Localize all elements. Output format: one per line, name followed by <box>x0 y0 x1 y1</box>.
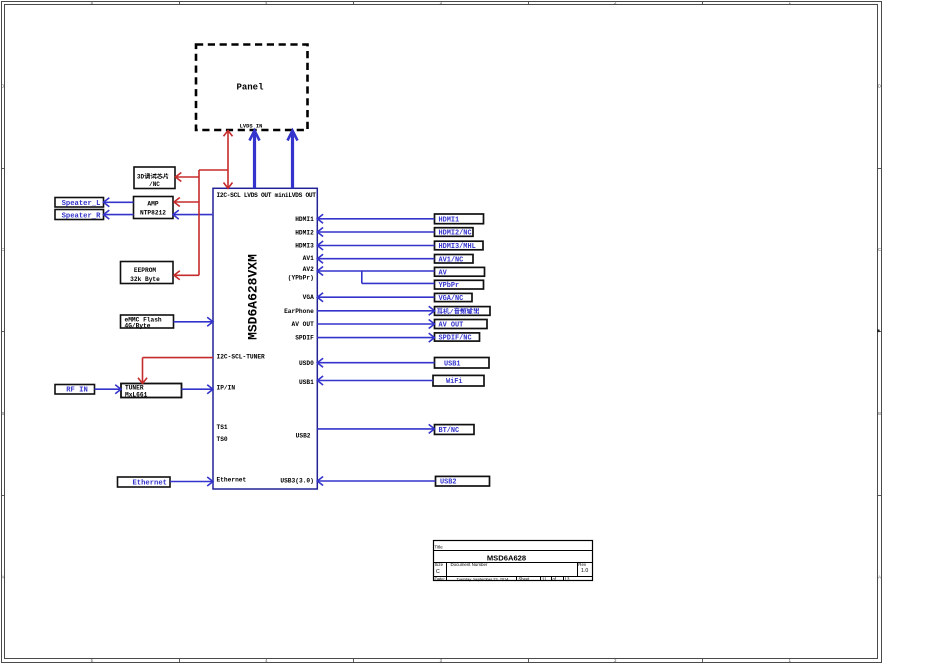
svg-text:Sheet: Sheet <box>519 576 531 581</box>
wire chip to BT/NC (arrow at box) <box>317 424 434 433</box>
svg-text:VGA: VGA <box>303 294 314 301</box>
pin IP/IN (chip left) <box>217 385 236 392</box>
block EarPhone connector (耳机/音频输出) <box>435 307 491 316</box>
svg-text:WiFi: WiFi <box>446 378 463 386</box>
wire I2C-SCL-TUNER to TUNER (red) <box>138 358 213 384</box>
wire red to EEPROM <box>174 271 199 280</box>
svg-text:HDMI1: HDMI1 <box>439 216 460 224</box>
wire Ethernet to chip <box>170 477 213 486</box>
svg-text:A: A <box>1 574 4 579</box>
pin Ethernet (chip left) <box>217 477 247 484</box>
block SPDIF/NC connector <box>435 333 480 343</box>
block Speater_R <box>55 210 104 221</box>
svg-text:C: C <box>436 569 440 575</box>
svg-text:NTP8212: NTP8212 <box>140 209 166 216</box>
svg-text:BT/NC: BT/NC <box>439 427 460 435</box>
block USB2 connector <box>436 476 490 486</box>
svg-text:Ethernet: Ethernet <box>217 477 247 484</box>
svg-text:13: 13 <box>565 576 570 581</box>
block AMP NTP8212 <box>134 197 174 219</box>
svg-text:AMP: AMP <box>147 200 158 207</box>
svg-text:Speater_R: Speater_R <box>62 212 102 220</box>
svg-text:I2C-SCL-TUNER: I2C-SCL-TUNER <box>217 354 266 361</box>
svg-text:USB2: USB2 <box>296 433 311 440</box>
svg-text:AV1/NC: AV1/NC <box>439 256 464 264</box>
svg-text:HDMI3: HDMI3 <box>295 243 314 250</box>
svg-text:B: B <box>878 411 881 416</box>
svg-text:Title: Title <box>435 545 444 550</box>
svg-text:C: C <box>878 247 881 252</box>
block 3D debug chip /NC <box>134 167 175 189</box>
svg-text:TS1: TS1 <box>217 424 228 431</box>
wire HDMI1 to chip (arrow at chip) <box>317 214 434 223</box>
wire red to AMP <box>174 198 199 207</box>
svg-text:11: 11 <box>542 576 547 581</box>
svg-text:D: D <box>1 84 4 89</box>
wire AMP to Speater_L <box>104 198 134 207</box>
svg-text:1.0: 1.0 <box>581 568 588 574</box>
wire red I2C branch jog <box>199 170 228 275</box>
pin USB3(3.0) (chip right) <box>280 478 313 485</box>
wire AV to chip (arrow at chip) <box>317 267 434 276</box>
svg-text:Ethernet: Ethernet <box>132 480 167 488</box>
svg-text:LVDS IN: LVDS IN <box>240 124 263 130</box>
block HDMI3/MHL connector <box>435 241 484 251</box>
svg-text:Panel: Panel <box>236 83 264 93</box>
pin AV2 (chip right) <box>303 266 314 273</box>
svg-text:Tuesday, September 23, 2014: Tuesday, September 23, 2014 <box>457 576 510 581</box>
block Ethernet <box>118 477 171 488</box>
svg-text:MSD6A628: MSD6A628 <box>487 554 526 563</box>
svg-text:EarPhone: EarPhone <box>284 308 314 315</box>
pin USD0 (chip right) <box>299 360 314 367</box>
pin AV OUT (chip right) <box>292 321 315 328</box>
wire chip to AV OUT jack (arrow at box) <box>317 320 434 329</box>
svg-text:AV: AV <box>439 269 448 277</box>
svg-text:HDMI3/MHL: HDMI3/MHL <box>439 243 476 251</box>
svg-text:USB2: USB2 <box>440 479 457 487</box>
svg-text:IP/IN: IP/IN <box>217 385 236 392</box>
block BT/NC connector <box>435 425 475 435</box>
pin USB1 (chip right) <box>299 379 314 386</box>
block Speater_L <box>55 198 104 208</box>
svg-text:32k Byte: 32k Byte <box>130 276 160 283</box>
title block <box>434 541 593 582</box>
svg-text:(YPbPr): (YPbPr) <box>288 275 314 282</box>
block EEPROM 32k Byte <box>121 262 174 284</box>
svg-text:4G/Byte: 4G/Byte <box>125 322 151 329</box>
svg-text:AV OUT: AV OUT <box>439 322 464 330</box>
svg-text:USB1: USB1 <box>299 379 314 386</box>
block AV1/NC connector <box>435 255 474 265</box>
block VGA/NC connector <box>435 293 473 303</box>
pin EarPhone (chip right) <box>284 308 314 315</box>
svg-text:MSD6A628VXM: MSD6A628VXM <box>246 254 261 340</box>
svg-text:I2C-SCL LVDS OUT miniLVDS OUT: I2C-SCL LVDS OUT miniLVDS OUT <box>217 192 317 199</box>
svg-text:MxL661: MxL661 <box>125 391 148 398</box>
block HDMI1 connector <box>435 214 484 224</box>
pin USB2 (chip right) <box>296 433 311 440</box>
pin TS0 (chip left) <box>217 436 228 443</box>
svg-text:Rev: Rev <box>578 562 587 567</box>
svg-text:/NC: /NC <box>149 181 160 188</box>
svg-text:Speater_L: Speater_L <box>62 200 101 208</box>
svg-text:EEPROM: EEPROM <box>134 267 157 274</box>
pin HDMI1 (chip right) <box>295 216 314 223</box>
block HDMI2/NC connector <box>435 228 474 238</box>
pin HDMI3 (chip right) <box>295 243 314 250</box>
wire eMMC Flash to chip <box>174 317 214 326</box>
wire chip audio out to AMP (arrow at AMP) <box>173 210 213 219</box>
wire I2C-SCL chip-panel (double arrow, red) <box>224 131 233 189</box>
wire USB1 (USD0) to chip (arrow at chip) <box>317 358 434 367</box>
svg-text:USB1: USB1 <box>444 360 461 368</box>
block RF IN <box>55 385 95 395</box>
block USB1 connector <box>435 358 490 369</box>
chip U1 MSD6A628VXM <box>213 188 317 489</box>
wire YPbPr branch joining AV net <box>362 271 435 283</box>
svg-text:SPDIF/NC: SPDIF/NC <box>439 335 472 343</box>
pin TS1 (chip left) <box>217 424 228 431</box>
wire RF IN to TUNER <box>95 385 122 394</box>
pin HDMI2 (chip right) <box>295 229 314 236</box>
block AV connector <box>435 267 485 277</box>
svg-text:SPDIF: SPDIF <box>295 335 314 342</box>
wire miniLVDS OUT to panel (thick) <box>288 131 298 189</box>
svg-text:USD0: USD0 <box>299 360 314 367</box>
wire HDMI2/NC to chip (arrow at chip) <box>317 228 434 237</box>
svg-text:B: B <box>1 411 4 416</box>
svg-text:USB3(3.0): USB3(3.0) <box>280 478 313 485</box>
pin VGA (chip right) <box>303 294 314 301</box>
svg-text:D: D <box>878 84 881 89</box>
svg-text:HDMI1: HDMI1 <box>295 216 314 223</box>
svg-text:HDMI2/NC: HDMI2/NC <box>439 230 472 238</box>
svg-text:HDMI2: HDMI2 <box>295 229 314 236</box>
svg-text:Date:: Date: <box>435 576 446 581</box>
pin I2C-SCL-TUNER (chip left) <box>217 354 266 361</box>
wire AMP to Speater_R <box>104 210 134 219</box>
wire TUNER to chip IP/IN <box>182 385 214 394</box>
pin AV1 (chip right) <box>303 255 314 262</box>
wire AV1/NC to chip (arrow at chip) <box>317 254 434 263</box>
svg-text:Document Number: Document Number <box>451 562 488 567</box>
wire USB2 (USB3) to chip (arrow at chip) <box>317 477 435 486</box>
svg-text:AV OUT: AV OUT <box>292 321 315 328</box>
block TUNER MxL661 <box>121 384 182 399</box>
svg-text:VGA/NC: VGA/NC <box>439 295 464 303</box>
pin label LVDS IN on panel <box>240 124 263 130</box>
svg-text:3D: 3D <box>137 173 145 180</box>
svg-text:RF IN: RF IN <box>66 387 88 395</box>
panel (dashed LVDS panel block) <box>196 45 308 131</box>
wire LVDS OUT to panel (thick) <box>250 131 260 189</box>
wire chip to SPDIF/NC (arrow at box) <box>317 333 434 342</box>
svg-text:C: C <box>1 247 4 252</box>
pin label I2C-SCL LVDS OUT miniLVDS OUT (chip top) <box>217 192 317 199</box>
block AV OUT connector <box>435 320 488 330</box>
block eMMC Flash 4G/Byte <box>121 315 174 329</box>
wire red to 3D debug chip <box>176 173 200 182</box>
pin (YPbPr) (chip right) <box>288 275 314 282</box>
svg-text:AV2: AV2 <box>303 266 314 273</box>
wire HDMI3/MHL to chip (arrow at chip) <box>317 241 434 250</box>
pin SPDIF (chip right) <box>295 335 314 342</box>
svg-text:A: A <box>878 574 881 579</box>
svg-text:Size: Size <box>435 562 444 567</box>
svg-text:AV1: AV1 <box>303 255 314 262</box>
block WiFi connector <box>433 375 484 386</box>
svg-text:/: / <box>450 308 454 315</box>
wire WiFi (USB1) to chip (arrow at chip) <box>317 376 433 385</box>
svg-text:TS0: TS0 <box>217 436 228 443</box>
block YPbPr connector <box>435 280 484 290</box>
wire VGA/NC to chip (arrow at chip) <box>317 293 434 302</box>
wire chip to EarPhone jack (arrow at box) <box>317 306 434 315</box>
svg-text:YPbPr: YPbPr <box>439 282 460 290</box>
